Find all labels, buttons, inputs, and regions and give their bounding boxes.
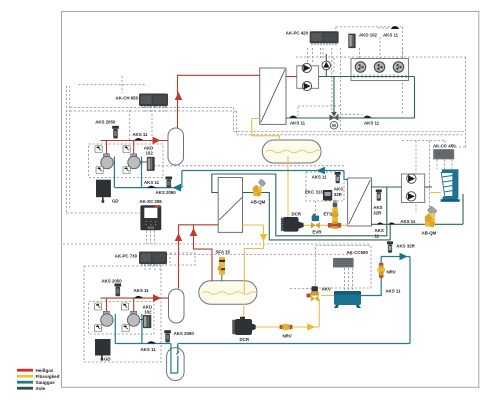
valve AKV (307, 286, 319, 301)
wire top edge upper-left box (67, 76, 299, 213)
svg-text:AKS 2050: AKS 2050 (102, 279, 123, 284)
sensor box AKS rack2 d (122, 325, 129, 332)
wire vertical to M valve (333, 58, 335, 74)
wire box AK-CC550 (316, 246, 372, 289)
svg-text:AB-QM: AB-QM (251, 200, 266, 205)
heat exchanger HX2 cascade (218, 178, 242, 233)
valve NRV LT suction (377, 263, 385, 278)
sensor AKS 11 rack2 suction flat (147, 341, 156, 343)
svg-text:Heißgas: Heißgas (36, 368, 54, 373)
wire drop to EVR (315, 201, 317, 215)
wire brine chiller return line (372, 194, 464, 224)
compressor 2 rack1 (128, 154, 140, 169)
sensor box AKS rack1 a (95, 146, 102, 153)
controller EKC 313 (323, 190, 332, 201)
svg-text:AK-CH 650: AK-CH 650 (115, 96, 138, 101)
svg-text:AKS 11: AKS 11 (134, 288, 150, 293)
svg-text:GD: GD (104, 357, 111, 362)
sensor AKS 11 chiller brine flat (388, 222, 395, 224)
sensor AKS 11 rack1 suction flat (147, 186, 156, 188)
wire suction accumulator J pipe (171, 257, 410, 374)
svg-text:AK-PC 420: AK-PC 420 (286, 31, 309, 36)
svg-text:AKS 32R: AKS 32R (396, 244, 415, 249)
wire pump box to air cooler stub (425, 186, 432, 188)
wire verticals AKS2050 upper (130, 110, 152, 140)
wire drops AK-CC 450 (437, 160, 452, 170)
transmitter AKS 2050 suction mid (166, 177, 173, 188)
arrow suction MT main flow (317, 167, 325, 175)
sensor box AKS rack1 d (123, 167, 130, 174)
svg-text:Sauggas: Sauggas (36, 380, 56, 385)
svg-text:AKS 11: AKS 11 (132, 132, 148, 137)
drive AKD 102 condenser (348, 34, 355, 49)
heat exchanger HX1 condenser (260, 68, 286, 124)
wire drops condenser fans (360, 37, 403, 58)
sensor AKS 11 chiller bottom flat (377, 222, 384, 224)
wire bus band receiver row (234, 132, 466, 135)
wire suction evaporator riser (361, 257, 410, 296)
svg-text:DCR: DCR (240, 337, 250, 342)
wire dashed row mid (150, 165, 345, 167)
controller AK-CC550 (333, 258, 354, 268)
svg-text:AKS 11: AKS 11 (400, 219, 416, 224)
svg-text:102: 102 (144, 310, 152, 315)
controller AK-CC 450 (433, 149, 454, 159)
pump box 1 (297, 63, 319, 90)
svg-text:NRV: NRV (283, 334, 292, 339)
svg-text:AKS 11: AKS 11 (364, 121, 380, 126)
svg-text:AKS 2050: AKS 2050 (174, 331, 195, 336)
sensor AKS 11 rack1 flat (134, 138, 143, 140)
svg-text:AKS 11: AKS 11 (144, 180, 160, 185)
arrow suction MT to rack (173, 184, 181, 192)
drive AKD 102 rack1 (140, 157, 155, 171)
heat exchanger HX3 chiller evaporator (348, 178, 372, 226)
wire to AKV (290, 288, 316, 290)
wire liquid DCR2 to AKV (256, 299, 320, 327)
svg-text:AKS 11: AKS 11 (290, 121, 306, 126)
legend Sauggas (17, 381, 33, 384)
wire bus band AK-PC 730 row (63, 244, 371, 255)
wire hot gas receiver2 vapor line (194, 225, 213, 281)
fitting check valves liquid line (328, 223, 341, 228)
arrow hot gas up riser 2a (175, 233, 183, 241)
svg-text:EKC 313: EKC 313 (305, 190, 323, 195)
wire brine cascade HX loop outer (212, 174, 402, 236)
arrow hot gas into oil separator 2 (153, 294, 161, 302)
condenser dry cooler box (351, 59, 409, 81)
sensor AKS 11 outdoor (391, 26, 400, 29)
filter drier DCR 2 (232, 317, 255, 335)
evaporator LT unit (334, 291, 361, 308)
sensor box AKS rack1 c (96, 167, 103, 174)
wire hot gas riser circuit 2 (179, 225, 219, 289)
svg-text:Flüssigkeit: Flüssigkeit (36, 374, 60, 379)
wire verticals mid right (402, 141, 445, 214)
wire outer box lower-left (84, 266, 161, 362)
wire liquid AKV to evaporator (321, 295, 334, 297)
svg-text:AK-CC 450: AK-CC 450 (433, 144, 456, 149)
wire hot gas rack2 discharge manifold (101, 298, 169, 313)
svg-text:AKD 102: AKD 102 (359, 33, 378, 38)
svg-text:AKS 2050: AKS 2050 (156, 190, 177, 195)
sensor box AKS rack2 c (95, 325, 102, 332)
wire drops AK-SC 255 (147, 231, 155, 245)
sensor box AKS rack2 b (122, 303, 129, 310)
svg-text:AK-PC 730: AK-PC 730 (115, 254, 138, 259)
drive AKD 102 rack2 (140, 315, 151, 328)
wire liquid HX1 to receiver1 (252, 119, 280, 142)
wire hot gas riser circuit 1 (178, 75, 260, 128)
svg-text:AKV: AKV (322, 287, 331, 292)
wire box right of AK-PC 730 (170, 253, 195, 265)
valve EVR solenoid (311, 214, 320, 229)
wire bus band upper-left (70, 108, 237, 135)
wire liquid receiver1 outlet to DCR (287, 156, 289, 218)
svg-text:AKS: AKS (334, 187, 343, 192)
suction accumulator (167, 348, 185, 381)
valve AB-QM 2 (425, 206, 437, 227)
wire control bus right (296, 57, 466, 147)
wire box compressor rack 2 (89, 302, 154, 335)
wire drops AK-PC 730 (145, 264, 160, 270)
legend Sole (17, 387, 33, 390)
wire hot gas HX1 to pump box (286, 76, 297, 78)
svg-text:AK-CC550: AK-CC550 (347, 250, 369, 255)
svg-text:AKS: AKS (375, 228, 384, 233)
gas detector GD 2 (95, 339, 111, 361)
controller AK-CH 650 (139, 94, 168, 108)
wire liquid line DCR EVR ETS to HX3 (304, 224, 348, 226)
compressor 1 rack2 (101, 311, 113, 326)
wire to AKS11 sensor condenser return (333, 113, 362, 115)
svg-text:AK-SC 255: AK-SC 255 (139, 199, 162, 204)
legend Fluessigkeit (17, 375, 33, 378)
svg-text:AKS 2050: AKS 2050 (95, 120, 116, 125)
transmitter AKS 2050 accumulator (164, 330, 171, 342)
svg-text:Sole: Sole (36, 386, 46, 391)
wire drops AK-CH 650 (145, 106, 165, 112)
svg-text:32R: 32R (373, 210, 382, 215)
transmitter AKS 32R chiller suction (335, 172, 341, 183)
legend Heissgas (17, 369, 33, 372)
wire drops AK-CC550 (345, 268, 353, 290)
wire brine condenser return (286, 77, 415, 119)
sensor AKS 11 rack2 flat (134, 296, 143, 298)
filter drier DCR 1 (281, 217, 304, 232)
receiver 1 (262, 140, 322, 163)
valve SFA 15 (218, 257, 225, 281)
svg-text:AKS 11: AKS 11 (385, 289, 401, 294)
arrow hot gas up riser 2b (190, 228, 198, 236)
arrow hot gas into oil separator 1 (153, 137, 161, 145)
air cooler unit (441, 169, 460, 202)
wire box around AKD102 AKS11 condenser (336, 27, 403, 114)
controller AK-SC 255 (140, 205, 161, 230)
controller AK-PC 730 (139, 252, 167, 266)
valve M motor 3way (330, 112, 338, 129)
sensor box AKS rack1 b (123, 146, 130, 153)
wire suction rack2 (115, 314, 171, 344)
oil separator circuit 1 (168, 128, 184, 165)
svg-text:AB-QM: AB-QM (422, 231, 437, 236)
arrow liquid down to receiver 2 (260, 234, 268, 242)
valve AB-QM 1 (253, 179, 266, 196)
compressor 1 rack1 (101, 154, 113, 169)
pump vertical brine (322, 61, 331, 70)
svg-text:32R: 32R (334, 192, 343, 197)
arrow hot gas up riser 1 (175, 92, 183, 100)
svg-text:DCR: DCR (292, 212, 302, 217)
arrow suction LT to main (400, 253, 408, 261)
svg-text:102: 102 (146, 151, 154, 156)
svg-text:AKS 11: AKS 11 (312, 175, 328, 180)
svg-text:AKS: AKS (373, 205, 382, 210)
sensor box AKS rack2 a (95, 303, 102, 310)
wire air cooler inlet stub (430, 192, 441, 194)
wire pump riser (325, 54, 327, 77)
sensor AKS 11 brine return flat 2 (364, 116, 372, 118)
gas detector GD 1 (96, 180, 111, 203)
svg-text:AKS 11: AKS 11 (141, 347, 157, 352)
sensor AKS 11 brine return flat (289, 116, 297, 118)
arrow liquid to AKV riser (307, 323, 315, 331)
wire liquid HX2 to receiver2 (243, 225, 264, 318)
svg-text:AKS 11: AKS 11 (383, 33, 399, 38)
svg-text:M: M (332, 123, 336, 128)
transmitter AKS 32R LT suction (387, 241, 393, 252)
transmitter AKS 2050 rack1 (112, 126, 119, 139)
controller AK-PC 420 (310, 31, 339, 45)
wire brine condenser supply (319, 77, 415, 119)
wire suction main MT (115, 171, 348, 188)
wire brine cascade HX loop inner (243, 193, 391, 240)
svg-text:GD: GD (112, 199, 119, 204)
wire box compressor rack 1 (89, 144, 163, 178)
transmitter AKS 32R chiller brine (376, 190, 382, 201)
oil separator circuit 2 (169, 289, 185, 323)
svg-text:NRV: NRV (387, 270, 396, 275)
valve NRV liquid (280, 324, 293, 331)
pump box 2 (401, 174, 424, 203)
wire hot gas rack1 discharge manifold (101, 141, 169, 157)
wire bundle under AK-PC 420 (298, 48, 340, 130)
svg-text:EVR: EVR (312, 230, 322, 235)
compressor 2 rack2 (127, 311, 139, 326)
wire suction rack1 (114, 157, 141, 188)
transmitter AKS 2050 rack2 (115, 284, 122, 297)
svg-text:11: 11 (375, 233, 380, 238)
valve ETS expansion (331, 200, 338, 229)
svg-text:SFA 15: SFA 15 (216, 250, 231, 255)
receiver 2 (199, 281, 258, 304)
svg-text:ETS: ETS (324, 212, 333, 217)
wire box chiller controls (306, 172, 344, 201)
